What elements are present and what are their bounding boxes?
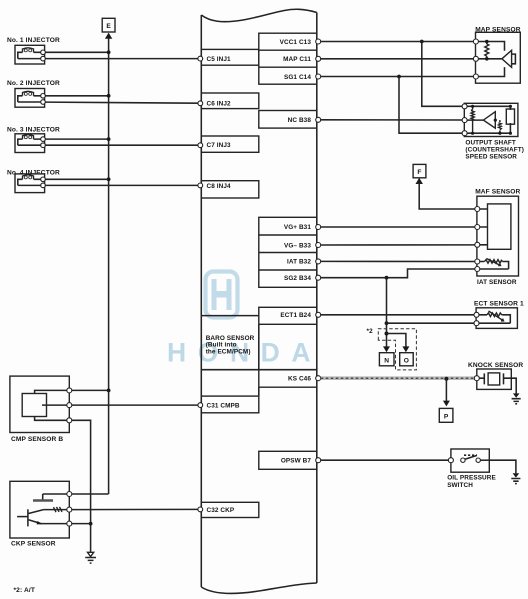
injector No.2	[15, 89, 45, 108]
svg-text:SWITCH: SWITCH	[447, 482, 473, 489]
OUTPUT SHAFT label	[465, 140, 524, 161]
svg-text:VG– B33: VG– B33	[284, 242, 311, 249]
wire injector4 to E line	[45, 177, 110, 181]
wire MAP C11 to MAP sensor	[316, 56, 474, 61]
arrow into O	[402, 346, 409, 352]
ground wire E vertical	[108, 38, 110, 494]
ECM pin box C7 INJ3	[201, 136, 258, 152]
arrow into P	[443, 401, 450, 407]
svg-text:C7 INJ3: C7 INJ3	[207, 142, 231, 149]
ECM pin box KS C46 (top edge spans full ECM width)	[201, 370, 316, 388]
CMP sensor B	[10, 376, 72, 432]
wire VCC1 C13 to MAP sensor	[316, 39, 474, 44]
oil pressure switch	[448, 449, 489, 472]
svg-text:ECT1 B24: ECT1 B24	[280, 312, 311, 319]
ECT SENSOR 1 label	[474, 301, 524, 308]
svg-text:C5 INJ1: C5 INJ1	[207, 56, 231, 63]
ECM pin box C6 INJ2	[201, 93, 258, 109]
wire CKP top to E line	[72, 493, 109, 495]
svg-text:No. 2 INJECTOR: No. 2 INJECTOR	[7, 80, 60, 87]
svg-text:*2: *2	[367, 328, 374, 335]
injector No.1	[15, 45, 45, 64]
wire injector3 to E line	[45, 137, 110, 141]
wire injector4 to C8 INJ4	[45, 183, 202, 188]
wire CKP middle to C32 CKP	[72, 507, 203, 512]
ECM pin box NC B38	[259, 111, 317, 129]
ECM pin box OPSW B7	[259, 451, 317, 469]
svg-text:SPEED SENSOR: SPEED SENSOR	[465, 154, 517, 161]
wire injector2 to E line	[45, 94, 110, 98]
OIL PRESSURE SWITCH label	[447, 475, 496, 489]
injector No.4	[15, 174, 45, 193]
svg-text:IAT SENSOR: IAT SENSOR	[477, 279, 517, 286]
ECM/PCM body left edge	[200, 15, 202, 587]
injector No.4 label	[7, 170, 60, 177]
wire injector1 to C5 INJ1	[45, 56, 202, 61]
svg-text:OPSW B7: OPSW B7	[281, 458, 312, 465]
wire CMP top to E line	[72, 389, 111, 393]
svg-text:CMP SENSOR B: CMP SENSOR B	[11, 436, 63, 443]
injector No.3	[15, 134, 45, 153]
wire ECT1 B24 to ECT sensor	[316, 312, 474, 317]
ECM internal partition vertical	[258, 324, 260, 396]
IAT SENSOR label	[477, 279, 517, 286]
wire injector3 to C7 INJ3	[45, 143, 202, 148]
ECM internal BARO divider line	[201, 315, 258, 317]
wire branch to O	[387, 334, 406, 348]
ground oil pressure switch	[511, 473, 520, 483]
svg-text:KNOCK SENSOR: KNOCK SENSOR	[468, 362, 523, 369]
svg-text:NC B38: NC B38	[288, 117, 312, 124]
svg-text:OIL PRESSURE: OIL PRESSURE	[447, 475, 496, 482]
wire F to MAF sensor	[419, 183, 475, 209]
MAF SENSOR label	[475, 189, 520, 196]
CKP sensor	[10, 481, 72, 538]
wire VG- B33 to MAF	[316, 243, 475, 248]
*2 note marker	[367, 328, 374, 335]
BARO sensor text	[206, 335, 255, 355]
svg-text:SG2 B34: SG2 B34	[284, 275, 311, 282]
svg-text:VCC1 C13: VCC1 C13	[280, 39, 312, 46]
svg-text:(COUNTERSHAFT): (COUNTERSHAFT)	[465, 147, 524, 154]
injector No.1 label	[7, 37, 60, 44]
svg-text:IAT B32: IAT B32	[287, 259, 311, 266]
wire IAT B32 to MAF	[316, 259, 475, 264]
ECM/PCM body right edge	[316, 13, 318, 584]
CMP SENSOR B label	[11, 436, 63, 443]
wire VG+ B31 to MAF	[316, 225, 475, 230]
svg-text:VG+ B31: VG+ B31	[284, 224, 312, 231]
ground sensor common	[85, 552, 96, 563]
ECT sensor 1	[474, 308, 517, 329]
MAP SENSOR label	[475, 26, 521, 33]
svg-text:the ECM/PCM): the ECM/PCM)	[206, 348, 251, 355]
wire knock sensor to ground	[511, 378, 516, 393]
svg-text:MAF SENSOR: MAF SENSOR	[475, 189, 520, 196]
shielded wire KS C46 to knock sensor	[316, 376, 475, 381]
svg-text:C31 CMPB: C31 CMPB	[207, 402, 240, 409]
arrow into N	[383, 346, 390, 352]
ECM pin box C5 INJ1	[201, 49, 258, 65]
MAF sensor with IAT	[475, 196, 519, 276]
svg-text:*2: A/T: *2: A/T	[14, 587, 35, 594]
ECM pin box C8 INJ4	[201, 181, 258, 198]
watermark Honda logo	[167, 272, 322, 368]
wire CMP middle to C31 CMPB	[72, 403, 203, 408]
wire OPSW B7 to oil pressure switch	[316, 458, 449, 463]
svg-text:No. 1 INJECTOR: No. 1 INJECTOR	[7, 37, 60, 44]
wire SG1 C14 to MAP sensor	[316, 74, 474, 79]
ECM pin box C32 CKP	[201, 502, 258, 517]
KNOCK SENSOR label	[468, 362, 523, 369]
arrow into F	[416, 178, 423, 184]
wire KS to P	[445, 379, 447, 401]
connector F box	[413, 164, 426, 177]
svg-text:KS C46: KS C46	[288, 376, 311, 383]
wire CKP bottom to ground line	[72, 523, 91, 525]
arrow into E	[105, 33, 112, 39]
footnote *2: A/T	[14, 587, 35, 594]
connector E box	[102, 18, 115, 32]
ECM pin box group VCC1 C13 / MAP C11 / SG1 C14	[259, 33, 317, 84]
wire oil pressure switch to ground	[489, 460, 516, 473]
ECM/PCM torn top edge	[201, 9, 316, 21]
wire injector1 to E line	[45, 50, 110, 54]
wire injector2 to C6 INJ2	[45, 101, 202, 106]
ECM pin box C31 CMPB	[201, 396, 258, 413]
wire VCC1 branch to speed sensor	[422, 42, 462, 107]
svg-text:N: N	[384, 357, 389, 364]
wire CMP bottom to ground line	[72, 420, 93, 552]
wire NC B38 to speed sensor	[316, 117, 462, 122]
ECM pin box group VG+ B31 / VG- B33 / IAT B32 / SG2 B34	[259, 217, 317, 287]
ECM pin box ECT1 B24	[259, 307, 317, 324]
svg-text:SG1 C14: SG1 C14	[284, 74, 311, 81]
OUTPUT SHAFT speed sensor	[462, 103, 518, 136]
svg-text:MAP C11: MAP C11	[283, 56, 311, 63]
ECM/PCM torn bottom edge	[201, 583, 316, 593]
svg-text:C8 INJ4: C8 INJ4	[207, 183, 231, 190]
connector P box	[439, 408, 453, 422]
position box O	[400, 353, 414, 366]
svg-text:ECT SENSOR 1: ECT SENSOR 1	[474, 301, 524, 308]
svg-text:O: O	[404, 357, 409, 364]
injector No.3 label	[7, 127, 60, 134]
ground knock sensor	[512, 393, 521, 403]
position box N	[379, 353, 394, 366]
wire SG2 branch down to N/O	[385, 278, 389, 348]
svg-text:C32 CKP: C32 CKP	[207, 507, 235, 514]
svg-text:P: P	[444, 414, 449, 421]
svg-text:F: F	[417, 169, 421, 176]
svg-text:CKP SENSOR: CKP SENSOR	[11, 541, 56, 548]
wire ECT sensor return to SG2 branch	[385, 321, 474, 325]
MAP sensor	[473, 32, 520, 83]
injector No.2 label	[7, 80, 60, 87]
svg-text:E: E	[106, 23, 111, 30]
wire SG2 B34 to MAF	[316, 269, 475, 280]
svg-text:C6 INJ2: C6 INJ2	[207, 101, 231, 108]
svg-text:No. 3 INJECTOR: No. 3 INJECTOR	[7, 127, 60, 134]
wire SG1 branch to speed sensor	[399, 77, 462, 134]
dashed A/T outline	[378, 329, 416, 370]
CKP SENSOR label	[11, 541, 56, 548]
knock sensor	[474, 369, 511, 389]
